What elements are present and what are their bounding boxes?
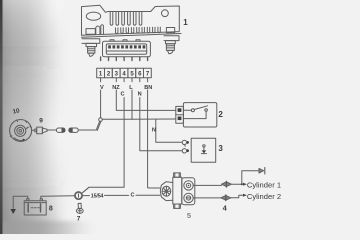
svg-text:C: C bbox=[120, 92, 124, 98]
svg-text:BN: BN bbox=[144, 85, 152, 91]
svg-text:Cylinder 2: Cylinder 2 bbox=[247, 192, 281, 201]
svg-text:N: N bbox=[138, 92, 142, 98]
svg-text:5: 5 bbox=[187, 211, 191, 220]
svg-text:2: 2 bbox=[218, 110, 223, 119]
svg-text:Cylinder 1: Cylinder 1 bbox=[247, 180, 281, 189]
svg-text:C: C bbox=[130, 193, 134, 199]
svg-text:N: N bbox=[152, 128, 156, 134]
svg-text:9: 9 bbox=[39, 118, 43, 125]
svg-text:L: L bbox=[129, 85, 133, 91]
svg-text:1: 1 bbox=[183, 18, 188, 27]
svg-text:15/54: 15/54 bbox=[91, 194, 104, 200]
svg-text:NZ: NZ bbox=[112, 85, 120, 91]
svg-text:V: V bbox=[100, 85, 104, 91]
svg-text:8: 8 bbox=[49, 205, 53, 212]
svg-text:7: 7 bbox=[77, 216, 81, 223]
svg-text:3: 3 bbox=[218, 144, 223, 153]
